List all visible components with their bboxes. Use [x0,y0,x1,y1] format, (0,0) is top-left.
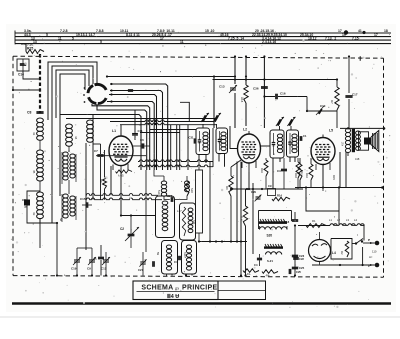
osc can pins to border [165,274,192,277]
chassis border top (dashed) [13,56,384,58]
antenna coil 41 [32,118,43,140]
if can S13 pins [273,126,280,189]
interstage transformer S20 [259,219,287,238]
svg-text:C25: C25 [296,270,301,274]
wire R25 left lead [21,44,26,52]
wire node x246 [245,55,247,85]
wire switch bracket 3 [56,70,89,118]
wire coil A joins [39,140,41,223]
trimmer C19 [71,248,81,276]
svg-text:R18: R18 [294,173,298,178]
svg-text:110: 110 [372,250,377,254]
tube V2 label [243,128,247,132]
svg-text:C17: C17 [352,93,358,97]
resistor R9 [225,167,233,242]
trimmer atop S16 [201,113,209,122]
wire node x214 [213,77,215,129]
coil 44 [66,124,78,146]
wire y225.5 bus [294,224,330,226]
oscillator can 3 [156,241,178,275]
svg-text:C4: C4 [174,260,178,264]
output transformer core [352,129,355,152]
svg-text:418: 418 [355,157,360,161]
svg-text:41: 41 [358,29,362,33]
capacitor C17 [345,93,357,129]
cathode block rect [306,188,339,212]
wire box feeders [168,125,188,170]
svg-text:L4: L4 [332,251,336,255]
svg-text:43: 43 [32,212,36,216]
svg-text:7.25: 7.25 [27,43,33,47]
wire switch to node (y76) [106,75,236,77]
loudspeaker frame [359,132,369,150]
wire switch contact (y91) [110,89,163,170]
tick on top border [359,56,361,61]
bottom rule [12,302,391,305]
svg-text:45: 45 [32,170,36,174]
trimmer atop S15 [213,113,221,122]
wire osc block [164,176,187,200]
capacitor C14 (boxed) [17,59,29,71]
svg-text:44.3: 44.3 [24,33,31,37]
svg-text:7.13. 2: 7.13. 2 [325,37,336,41]
svg-text:C18: C18 [284,220,290,224]
svg-text:C6: C6 [140,138,144,142]
svg-text:-R1-: -R1- [246,272,251,276]
wire avc horizontal [93,143,101,145]
svg-text:C29: C29 [251,190,256,194]
capacitor C11 [132,110,143,140]
coil S21 [264,244,283,263]
wire avc vertical 2 [92,115,94,200]
svg-text:C23: C23 [299,254,305,258]
svg-text:C7: C7 [94,149,98,153]
svg-text:5: 5 [46,33,48,37]
capacitor C22 [148,258,154,267]
wire V2 grid left [230,126,238,149]
svg-text:8.11 4 11: 8.11 4 11 [126,33,140,37]
svg-text:S11: S11 [192,220,196,225]
title box [133,281,218,300]
capacitor C18 [284,212,298,224]
resistor under V1 [116,170,133,178]
capacitor C34b [179,256,180,260]
wire x295 vertical [294,225,296,277]
resistor R4 [262,270,278,278]
bus wire y121.5 [110,120,213,122]
tube V1 pins [113,125,128,216]
svg-text:59: 59 [156,252,160,255]
wire V2 bottom bus [242,168,256,190]
svg-text:R14: R14 [277,194,282,198]
capacitor on avc line [93,245,104,276]
wire x307 vert [306,97,308,112]
capacitor C25b [292,266,305,270]
resistor R3 [306,219,326,227]
wire C34 branch [27,191,77,248]
svg-text:S16: S16 [198,139,202,145]
svg-text:C36: C36 [253,87,259,91]
coil S19 [157,181,167,196]
svg-text:C19: C19 [71,267,77,271]
capacitor C4c [254,254,262,267]
svg-text:2.4.14.16: 2.4.14.16 [262,40,276,44]
wire y215 bus [105,214,122,216]
svg-text:58: 58 [59,218,63,222]
wire lower bus 8 [140,132,180,134]
wire lamps link [334,226,364,241]
svg-text:C3: C3 [277,169,281,173]
tube V4 label [332,251,336,255]
svg-text:41: 41 [32,132,36,136]
parts list ruled band line 4 [15,43,391,45]
resistor R14 [272,194,290,201]
chassis border right (dashed) [383,58,385,277]
wire switch lower bus 1 [92,104,150,170]
svg-text:15 .10: 15 .10 [205,29,215,33]
resistor R25 label [27,43,33,50]
wire switch contact (y94) [109,93,157,170]
wire V2 plate right [261,145,271,147]
wire x237 vertical [236,162,238,242]
output transformer secondary [355,131,360,161]
svg-text:SCHEMA: SCHEMA [141,284,173,291]
wire v1 bottom to c2 [120,214,156,216]
pilot lamps [329,218,364,226]
chassis border bottom (dashed) [13,276,384,278]
wire bundle elbows [154,170,187,196]
capacitor C14 label [18,73,24,77]
svg-text:S18: S18 [190,188,194,193]
wire node x264 [263,55,265,128]
parts list ruled band line 3 [15,39,391,41]
trimmer C21 [138,252,147,276]
svg-text:18: 18 [384,29,388,33]
scan noise [11,32,390,308]
trimmer C13 [219,85,237,129]
svg-text:C9: C9 [268,184,272,188]
svg-text:C31: C31 [189,136,194,140]
trimmer C9 [87,248,96,276]
wire v4 top [308,232,320,240]
svg-text:L1: L1 [112,129,116,133]
resistor R18b [294,158,302,188]
svg-text:R15: R15 [332,175,336,180]
jack P1 [368,238,379,245]
capacitor C25 bars [289,269,301,274]
wire x346 vertical [345,152,347,188]
wire x150 elbow [150,159,186,170]
svg-text:C2: C2 [120,227,124,231]
capacitor C31 [189,136,196,171]
wire node x235 [234,55,236,84]
title model no. [167,293,179,300]
capacitor C15 [82,202,92,208]
wire x146 down [143,170,146,252]
capacitor C7 [97,144,103,200]
wire lower bus 4 [66,118,216,120]
oscillator can 1 [156,196,183,238]
wire switch contact (y101) [107,100,154,170]
resistor R7 [330,80,339,111]
wire V3 cathode [322,165,324,188]
svg-text:L2: L2 [243,128,247,132]
capacitor C6 [133,138,151,149]
svg-text:A≈: A≈ [369,255,373,259]
svg-text:S20: S20 [267,234,273,238]
svg-text:Ⅲ4 Ʉ: Ⅲ4 Ʉ [167,293,179,300]
svg-text:S-21: S-21 [267,259,273,263]
variable capacitor C2 [120,227,139,241]
svg-text:C21: C21 [138,268,144,272]
svg-text:5: 5 [100,40,102,44]
jack P2 [368,263,379,268]
svg-text:R1: R1 [312,219,316,223]
wire C14 to shielded lead [23,71,40,79]
svg-text:S15: S15 [218,138,222,144]
svg-text:R2: R2 [340,251,344,255]
resistor R10 [260,158,268,189]
svg-text:44: 44 [74,136,78,140]
chassis border left (dashed) [12,56,14,275]
capacitor C8 label [27,111,31,115]
tube V3 (output) [311,135,335,165]
antenna coil 43 [32,192,43,219]
wire speaker top bus [340,127,385,130]
loudspeaker horn [371,131,379,152]
trimmer atop S13 [276,117,284,126]
svg-text:S14: S14 [288,141,292,147]
resistor R2 [340,241,349,257]
wire c16 branch [263,95,275,97]
bus wire y124.7 [120,123,217,125]
svg-text:C1: C1 [303,134,307,138]
resistor R11 [296,158,304,189]
resistor R1b [243,269,259,276]
svg-text:C10: C10 [320,104,326,108]
svg-text:C11: C11 [138,129,144,133]
svg-text:R10: R10 [260,168,264,173]
svg-text:7.25 .5 .14: 7.25 .5 .14 [228,37,244,41]
capacitor C4 label [174,260,178,264]
resistor R19 [185,181,195,196]
oscillator can 4 [182,241,197,275]
svg-text:C25: C25 [299,266,305,270]
wire switch bracket 2 [52,66,93,223]
if can S16 pins [199,124,207,163]
svg-text:R8: R8 [99,179,103,183]
wire switch bracket 1 [48,62,97,120]
wire switch bracket 4 [60,74,85,196]
wire y101 corner [180,102,189,121]
tube V2 (IF/det) [238,131,261,163]
wire x340 vertical [339,152,341,188]
wire x210 vertical [209,162,211,242]
wire x213 vertical [212,128,214,167]
capacitor C19b [300,134,307,141]
resistor R18 body [240,85,248,126]
wire C2 leads [130,215,132,248]
parts list ruled band line 2 [15,36,391,38]
wire rect to switch [352,243,356,245]
shielded lead (heavy dashed) from R25 [39,54,41,113]
if transformer can S15 [216,128,228,154]
trimmer C29 [251,190,261,201]
capacitor C34 [24,194,30,212]
wire x241 to border [240,242,242,277]
svg-text:17: 17 [160,37,164,41]
title underline [137,291,215,293]
capacitor C16 [276,92,307,100]
svg-text:7.15: 7.15 [352,37,359,41]
wire x241 vertical [230,162,242,243]
if transformer can S13 [270,130,284,158]
if transformer can S14 [287,130,299,157]
svg-text:C15: C15 [80,197,86,201]
svg-text:18.12: 18.12 [308,37,317,41]
tube V3 label [329,129,333,133]
cathode bus y187.5 [295,186,384,189]
wire through V1 (y155.7) [96,155,146,157]
wire x245 to border [244,242,246,277]
wire switch contact (y84) [110,83,168,170]
wire x339 down [338,211,340,226]
capacitor C9b [268,184,276,196]
wire coil B joins [68,146,70,194]
capacitor C7 label [94,149,98,153]
revision box [218,281,266,300]
svg-text:10.11: 10.11 [120,29,128,33]
wire x111 vertical [110,166,112,195]
svg-text:L5: L5 [329,129,333,133]
wire y79 bus [213,78,339,80]
capacitor C15 label [80,197,86,201]
resistor R8 [99,177,107,189]
svg-text:-R4-: -R4- [265,274,270,278]
svg-text:дэ: дэ [175,286,179,290]
wire y189 bus [230,188,303,190]
bus wire y166.7 [138,165,213,167]
if coil pair 2 [59,194,76,222]
output transformer primary [341,129,351,153]
svg-text:C13: C13 [219,85,225,89]
mains switch [355,233,363,245]
tube V1 label [112,129,116,133]
resistor R16 [305,158,313,188]
wire avc vertical 1 [85,143,87,250]
svg-text:C12: C12 [101,267,107,271]
resistor R15 label [332,175,336,180]
capacitor C22 [293,257,304,261]
wire ant down [56,223,58,277]
svg-text:S16: S16 [183,252,187,257]
wire left border to shield [12,89,41,91]
parts list ruled band line 1 [15,32,391,34]
wire transformer leads [346,153,349,157]
if can S14 pins [290,126,295,162]
wire r8 leads [104,150,106,200]
svg-text:R9: R9 [225,186,229,190]
svg-text:C16: C16 [280,92,286,96]
bus wire y199.7 [86,198,162,200]
svg-text:PRINCIPE: PRINCIPE [182,284,217,291]
mains label [369,250,377,260]
wire switch to jack line [362,247,364,266]
capacitor C36 [253,87,268,91]
capacitor C3 [277,158,287,189]
if coil pair 1 [62,150,76,184]
bus wire y161.5 [138,160,213,162]
wire trimmer link [76,248,107,277]
svg-text:7.8.8: 7.8.8 [96,29,104,33]
wire v4 bottom [340,237,364,239]
rect loop around R2 [331,239,352,260]
svg-text:11: 11 [58,37,62,41]
wire switch lower bus 2 [97,104,147,170]
wire node x349 [348,55,350,93]
capacitor C8 [36,112,43,113]
title text [141,284,217,291]
resistor R25 [26,50,44,54]
loudspeaker magnet [364,138,371,145]
svg-text:λ-55: λ-55 [118,174,124,178]
wire y248 gnd [131,247,146,249]
antenna coil 45 [32,150,43,181]
svg-text:C9: C9 [87,267,91,271]
resistor block R19 rect [196,162,203,242]
svg-text:13: 13 [33,40,37,44]
capacitor C23 [292,254,305,258]
svg-text:R7: R7 [330,100,334,104]
parts list left tick [14,31,16,45]
capacitor C34 label [22,198,28,209]
svg-text:P: P [368,238,370,242]
tube V2 pins [242,161,256,172]
wire S20 frame [259,211,292,230]
wire lower bus 7 [150,129,196,131]
resistor R6 [240,189,248,242]
tube V4 (rectifier) [309,240,331,262]
svg-text:C8: C8 [27,111,31,115]
svg-text:17: 17 [374,33,378,37]
svg-text:R-6: R-6 [240,216,244,221]
if transformer can S16 [196,128,210,155]
bus wire y195.3 [86,194,158,196]
svg-text:510: 510 [157,190,161,195]
svg-text:417: 417 [341,141,345,146]
capacitor C10 [316,104,326,115]
wire y241.5 bus [198,240,247,242]
svg-text:11: 11 [180,40,184,44]
svg-text:S13: S13 [272,141,276,147]
wire y111 link [306,110,337,128]
trimmer atop S14 [287,117,295,126]
coil 46 [87,120,94,142]
svg-text:R16: R16 [305,173,309,178]
tube V1 (converter) [109,133,133,166]
if can S15 pins [217,124,225,167]
wire jacks [312,243,375,266]
wire x253 vertical [252,183,254,254]
trimmer C12 [101,252,110,276]
svg-text:C4: C4 [254,263,258,267]
svg-text:7.2.8: 7.2.8 [60,29,68,33]
capacitor C26 [167,194,173,202]
page edge shadow [0,316,400,318]
svg-text:19.13-1 14.7: 19.13-1 14.7 [76,33,95,37]
rotary band switch S1 [83,84,106,103]
wire V2 to R9 [231,160,241,167]
